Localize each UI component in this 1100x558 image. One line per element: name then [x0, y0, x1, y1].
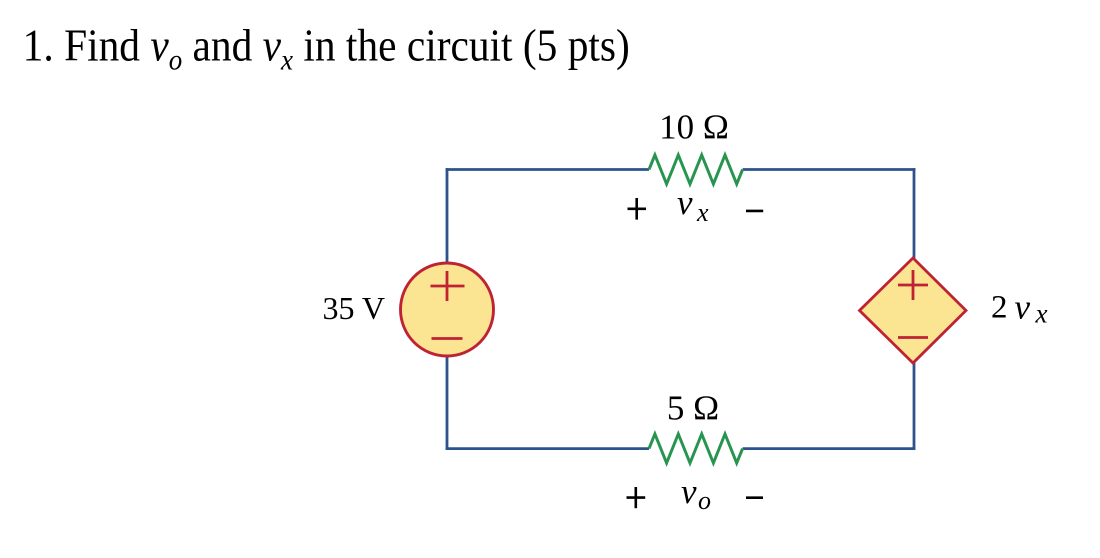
- svg-text:x: x: [696, 198, 709, 227]
- svg-text:v: v: [677, 183, 693, 222]
- svg-text:5 Ω: 5 Ω: [667, 389, 719, 428]
- polarity minus (vx): [746, 210, 763, 213]
- wire top-right segment: [743, 168, 916, 171]
- wire left lower segment: [446, 355, 449, 450]
- resistor R1 10Ω zigzag: [649, 155, 743, 184]
- wire bottom-right segment: [743, 447, 916, 450]
- wire right lower segment: [913, 361, 916, 450]
- resistor R2 5Ω zigzag: [649, 434, 743, 463]
- wire top-left segment: [446, 168, 649, 171]
- wire right upper segment: [913, 168, 916, 260]
- svg-text:10 Ω: 10 Ω: [659, 108, 729, 147]
- svg-text:v: v: [1015, 288, 1031, 327]
- svg-text:x: x: [1035, 299, 1048, 329]
- polarity plus (vo): [627, 496, 646, 499]
- svg-text:o: o: [698, 486, 711, 515]
- svg-text:1. Find vo and vx in the circu: 1. Find vo and vx in the circuit (5 pts): [23, 21, 630, 77]
- dependent source 2vx (diamond): [860, 258, 967, 363]
- svg-text:2: 2: [991, 290, 1008, 326]
- voltage source VS 35V: [401, 263, 494, 356]
- svg-text:35 V: 35 V: [322, 290, 385, 326]
- wire left upper segment: [446, 168, 449, 264]
- wire bottom-left segment: [446, 447, 649, 450]
- svg-text:v: v: [681, 472, 697, 511]
- polarity minus (vo): [746, 496, 763, 499]
- polarity plus (vx): [628, 208, 647, 211]
